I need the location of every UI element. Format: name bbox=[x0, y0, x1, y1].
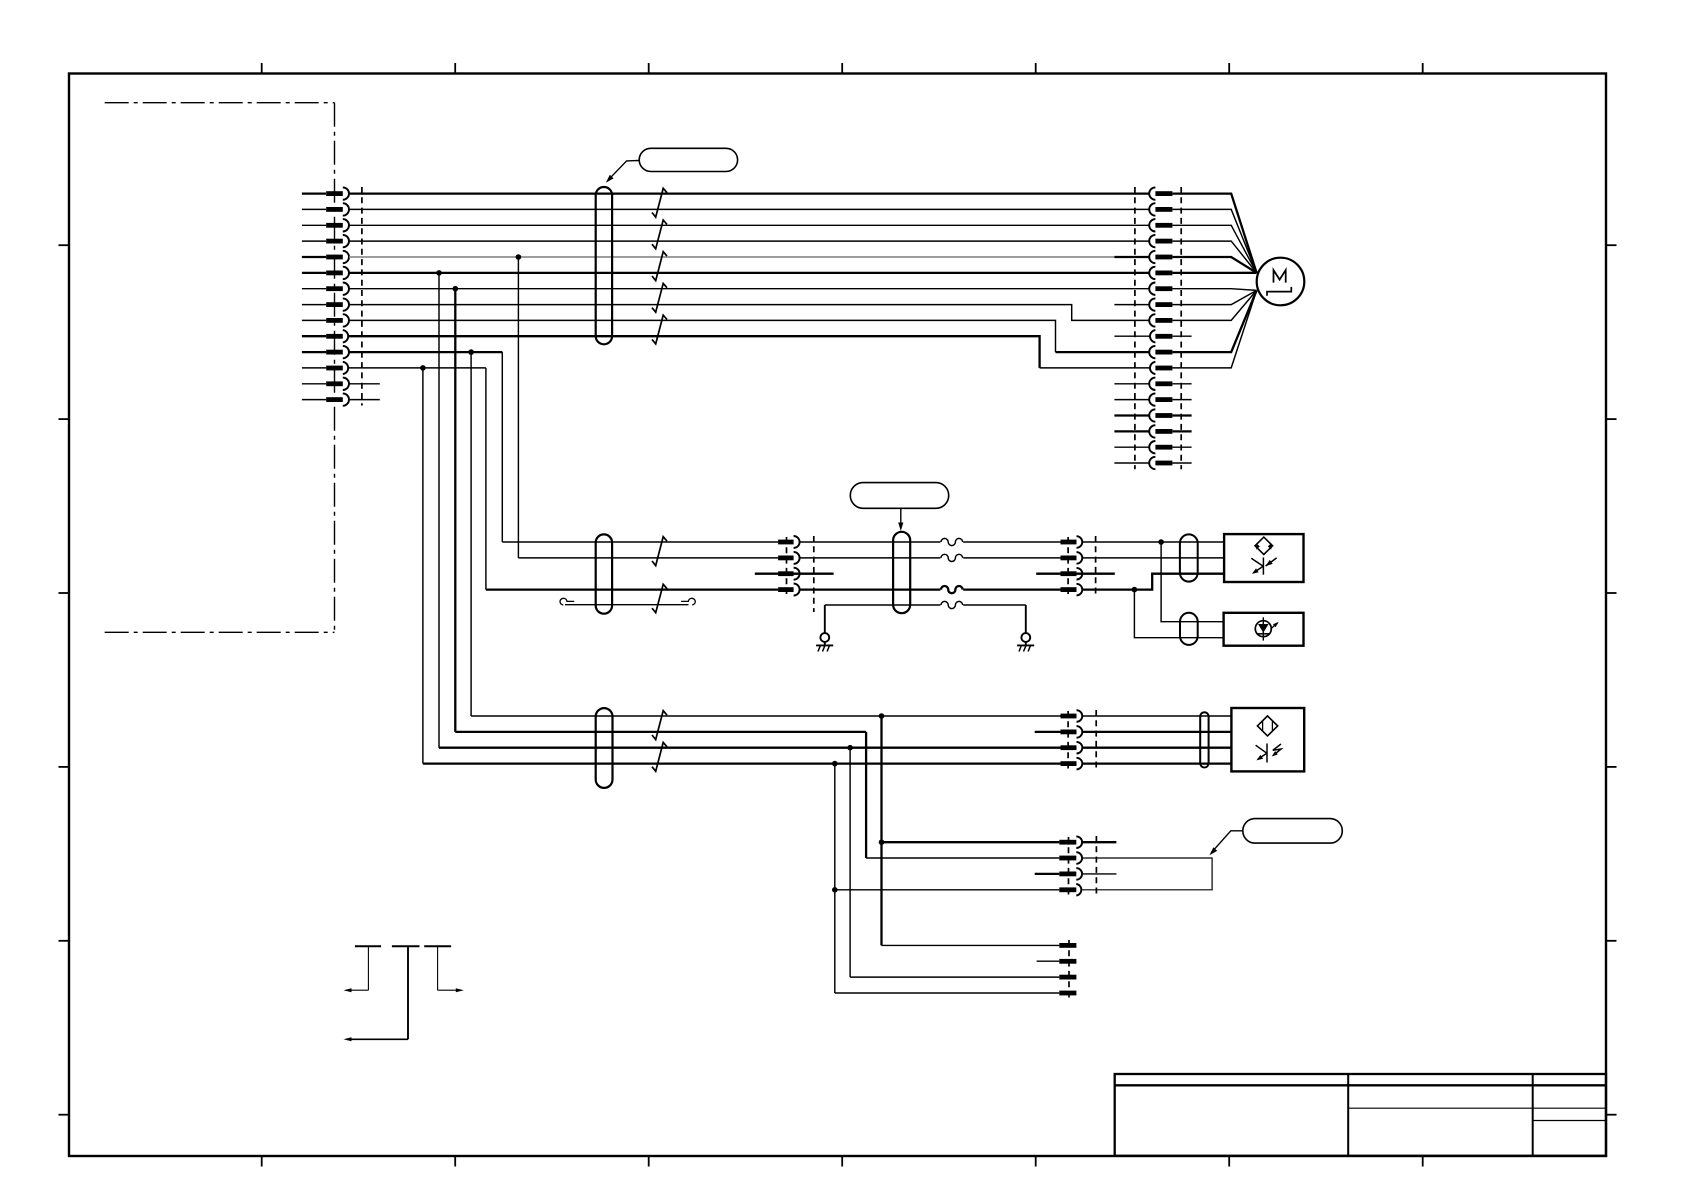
wire vdrop I (to X7.3) bbox=[849, 748, 851, 977]
wire X7.4 feed bbox=[835, 992, 1060, 994]
motor lead from X2.7 bbox=[1172, 289, 1256, 291]
wire net9 (J1.9 step down) bbox=[349, 320, 1056, 352]
node F junction bbox=[1158, 539, 1164, 545]
wire X5.3 to B3.3 bbox=[1082, 747, 1231, 749]
wire X5.4 to B3.4 bbox=[1082, 762, 1231, 764]
wire stub X5.2 bbox=[1035, 731, 1061, 733]
wire vdrop net11-end (to row b1) bbox=[501, 352, 503, 542]
connector X5 (4 pins) bbox=[1061, 714, 1077, 719]
cable W5 core tick 2 bbox=[652, 742, 667, 771]
wire stub X6.3 left bbox=[1035, 873, 1060, 875]
cable W1 core tick 5 bbox=[652, 315, 667, 344]
cable W1 core tick 2 bbox=[652, 220, 667, 249]
motor lead from X2.1 bbox=[1172, 194, 1256, 273]
wire c2 (step to X6.2) bbox=[455, 731, 866, 733]
wire vdrop H (to X7.1) bbox=[880, 716, 882, 945]
wire node L to X6.4 bbox=[835, 889, 1060, 891]
motor lead from X2.11 bbox=[1172, 290, 1256, 352]
cable W2a core tick 1 bbox=[652, 537, 667, 566]
wire b2b (X3.2 to X4.2) bbox=[800, 557, 1061, 559]
cable shield W1 (screen symbol) bbox=[596, 187, 612, 344]
legend symbol 3 (shield to housing, right) bbox=[424, 945, 451, 947]
wire b4 (to X3.4) bbox=[486, 588, 778, 590]
wire X5.2 to B3.2 bbox=[1082, 731, 1231, 733]
wire stub X6.1 right bbox=[1082, 841, 1116, 843]
node E junction bbox=[420, 365, 426, 371]
connector X4 mating line (dashed) bbox=[1095, 536, 1097, 595]
wire c1 (to X5.1) bbox=[471, 715, 1060, 717]
motor lead from X2.9 bbox=[1172, 290, 1256, 320]
wire vdrop J (to X7.4) bbox=[834, 764, 836, 993]
frame ticks right bbox=[1606, 244, 1617, 246]
wire vdrop B (net6 to row c3) bbox=[438, 273, 440, 748]
legend symbol 2 (shield drain, center) bbox=[392, 945, 420, 947]
node H junction bbox=[879, 713, 885, 719]
title block bbox=[1115, 1074, 1606, 1156]
connector X6 (4 pins) bbox=[1059, 840, 1076, 845]
leader K3 bbox=[1211, 831, 1243, 853]
node I junction bbox=[847, 745, 853, 751]
wire stub J1.13 bbox=[349, 383, 380, 385]
wire net10b (to X2.12) bbox=[1040, 367, 1150, 369]
wire node K to X6.1 bbox=[882, 841, 1060, 843]
connector X3 (inline, 4 pins) bbox=[778, 540, 794, 545]
frame ticks bottom bbox=[261, 1156, 263, 1167]
legend symbol 1 (shield to housing, left) bbox=[355, 945, 381, 947]
connector X7 (4 pins) bbox=[1059, 943, 1076, 948]
cable W2a core tick 2 bbox=[652, 584, 667, 612]
wire net6 (J1.6 to X2.6) bbox=[349, 272, 1150, 274]
wire stub X3.3 bbox=[755, 573, 834, 575]
wire b4b (X3.4 to X4.4) bbox=[800, 588, 1061, 590]
cable break drain bbox=[940, 600, 963, 611]
wire stub X4.3 bbox=[1036, 573, 1115, 575]
wire b2 (to X3.2) bbox=[518, 557, 778, 559]
wire X7.3 feed bbox=[850, 976, 1059, 978]
node A junction bbox=[516, 254, 522, 260]
wire vdrop net12-end (to row b4) bbox=[485, 368, 487, 590]
callout balloon K2 bbox=[850, 483, 948, 509]
wire net4 (J1.4 to X2.4) bbox=[349, 240, 1150, 242]
connector X4 pin column line (dashed) bbox=[1067, 537, 1069, 594]
wire vdrop A (net5 to row b2) bbox=[517, 257, 519, 558]
shield drain pigtail W2a bbox=[565, 604, 689, 606]
ground symbol left bbox=[824, 605, 826, 633]
motor lead from X2.2 bbox=[1172, 209, 1256, 272]
wire X7.1 feed bbox=[882, 944, 1060, 946]
X2 unconnected pin stubs (right) bbox=[1172, 335, 1191, 337]
wire X4.2 to B1.2 bbox=[1082, 557, 1224, 559]
connector X5 mating line (dashed) bbox=[1095, 710, 1097, 770]
wire stub X6.3 right bbox=[1082, 873, 1116, 875]
cable shield W2b (screen symbol) bbox=[893, 532, 910, 613]
cable shield W5 (screen symbol) bbox=[596, 708, 613, 788]
cable shield W4 (screen symbol) bbox=[1180, 613, 1198, 645]
connector X3 mating line (dashed) bbox=[813, 536, 815, 612]
wire vdrop C (net7 to row c2) bbox=[454, 289, 456, 732]
connector X6 mating line (dashed) bbox=[1095, 836, 1097, 896]
motor lead from X2.4 bbox=[1172, 241, 1256, 273]
motor lead from X2.8 bbox=[1172, 290, 1256, 304]
connector X2 rear line (dashed) bbox=[1180, 187, 1182, 469]
callout balloon K3 bbox=[1243, 819, 1343, 844]
connector X7 pin column line (dashed) bbox=[1068, 940, 1070, 998]
wire net5b (X2.5 pin lead) bbox=[1114, 256, 1150, 258]
wire X4.4 step up to B1.3 bbox=[1082, 574, 1224, 590]
frame ticks top bbox=[261, 63, 263, 74]
cable shield W6 (screen symbol) bbox=[1200, 712, 1208, 767]
connector X3 pin column line (dashed) bbox=[786, 537, 788, 594]
motor M1 bbox=[1257, 258, 1305, 306]
node C junction bbox=[453, 286, 459, 292]
connector X2 mating line (dashed) bbox=[1134, 187, 1136, 469]
node D junction bbox=[468, 349, 474, 355]
wire net8 (J1.8 to X2.9, stepped) bbox=[349, 305, 1150, 321]
connector X4 (sensor plug, 4 pins) bbox=[1061, 540, 1077, 545]
wire net2 (J1.2 to X2.2) bbox=[349, 208, 1150, 210]
wire c3 (to X5.3) bbox=[439, 747, 1061, 749]
motor lead from X2.3 bbox=[1172, 225, 1256, 272]
frame ticks left bbox=[59, 244, 70, 246]
motor lead from X2.6 bbox=[1172, 272, 1256, 274]
ECU enclosure (dash-dot boundary) bbox=[105, 102, 335, 104]
callout balloon K1 bbox=[639, 148, 737, 171]
node G junction bbox=[1132, 587, 1138, 593]
wire c2 vdrop bbox=[865, 732, 867, 858]
wire b1 (to X3.1) bbox=[502, 541, 778, 543]
wire net5a (J1.5 to X2.5 stub, highlighted) bbox=[349, 256, 1114, 258]
motor lead from X2.5 bbox=[1172, 257, 1256, 273]
wire net1 (J1.1 to X2.1) bbox=[349, 192, 1150, 194]
cable break b4 bbox=[940, 584, 963, 595]
cable W5 core tick 1 bbox=[652, 711, 667, 740]
shield drain W2b bbox=[825, 604, 1026, 606]
wire node F to B2.1 bbox=[1161, 542, 1224, 622]
wire net10 (J1.10 step down) bbox=[349, 336, 1040, 368]
wire X4.1 to B1.1 bbox=[1082, 541, 1224, 543]
node K junction bbox=[879, 839, 885, 845]
cable shield W2a (screen symbol) bbox=[596, 534, 612, 613]
sensor B2 (receiver) bbox=[1224, 613, 1304, 646]
wire vdrop E (net12 to row c4) bbox=[422, 368, 424, 764]
cable W1 core tick 1 bbox=[652, 188, 667, 217]
wire c2b (to X6.2) bbox=[866, 857, 1059, 859]
ground symbol right bbox=[1025, 605, 1027, 633]
node B junction bbox=[436, 270, 442, 276]
leader K2 bbox=[900, 508, 902, 528]
wire net7 (J1.7 to X2.7) bbox=[349, 288, 1150, 290]
wire node G to B2.2 bbox=[1134, 590, 1223, 638]
wire b1b (X3.1 to X4.1) bbox=[800, 541, 1061, 543]
wire net3 (J1.3 to X2.3) bbox=[349, 224, 1150, 226]
motor lead from X2.12 bbox=[1172, 290, 1256, 368]
wire stub X7.2 bbox=[1037, 960, 1060, 962]
cable break b2 bbox=[940, 553, 963, 564]
sensor B1 (reflex light barrier) bbox=[1224, 534, 1303, 582]
connector X2 (motor plug, 18 pins) bbox=[1149, 187, 1155, 199]
node J junction bbox=[832, 761, 838, 767]
wire stub J1.14 bbox=[349, 399, 380, 401]
sensor B3 (light barrier with output) bbox=[1231, 708, 1304, 771]
cable W1 core tick 3 bbox=[652, 252, 667, 281]
wire c4 (to X5.4) bbox=[423, 762, 1061, 764]
connector J1 mating line (dashed) bbox=[361, 187, 363, 406]
wire net12 (J1.12 horizontal) bbox=[349, 367, 486, 369]
X2 unconnected pin stubs (left) bbox=[1114, 304, 1149, 306]
connector J1 (ECU side, 14 pins) bbox=[302, 192, 326, 194]
leader K1 bbox=[608, 161, 639, 181]
connector X6 pin column line (dashed) bbox=[1068, 837, 1070, 895]
cable shield W3 (screen symbol) bbox=[1180, 534, 1198, 581]
cable break b1 bbox=[940, 537, 963, 548]
wire vdrop D (net11 to row c1) bbox=[470, 352, 472, 716]
cable W1 core tick 4 bbox=[652, 283, 667, 312]
wire X5.1 to B3.1 bbox=[1082, 715, 1231, 717]
connector X5 pin column line (dashed) bbox=[1067, 711, 1069, 769]
node L junction bbox=[832, 887, 838, 893]
cable outline X6 (rows 2-4) bbox=[1082, 858, 1212, 890]
wire net9b (to X2.11) bbox=[1056, 351, 1151, 353]
wire net11 (J1.11 horizontal) bbox=[349, 351, 502, 353]
